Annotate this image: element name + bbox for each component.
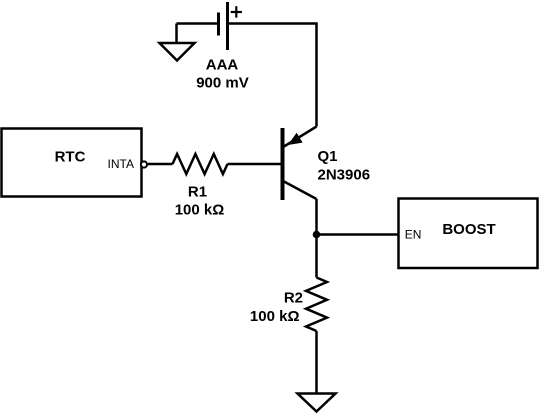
svg-text:100 kΩ: 100 kΩ — [250, 308, 300, 325]
junction node — [313, 231, 321, 239]
wire from ground stem to battery negative plate — [177, 22, 219, 25]
svg-text:900 mV: 900 mV — [196, 75, 249, 92]
svg-text:BOOST: BOOST — [442, 221, 495, 238]
INTA pin circle — [141, 161, 147, 167]
svg-text:Q1: Q1 — [318, 148, 338, 165]
wire collector down to R2 — [315, 199, 318, 278]
BOOST box — [399, 199, 538, 269]
wire R2 to ground — [315, 331, 318, 393]
battery V1 (AAA 900 mV) — [219, 2, 242, 50]
resistor R1 — [173, 154, 228, 174]
wire junction to BOOST EN — [317, 233, 399, 236]
transistor Q1 (PNP 2N3906) — [283, 127, 317, 201]
RTC box — [2, 129, 142, 197]
resistor R2 — [306, 278, 327, 332]
ground (bottom) — [298, 394, 336, 412]
svg-text:2N3906: 2N3906 — [318, 167, 371, 184]
wire R1 to base — [228, 163, 282, 166]
svg-text:R2: R2 — [284, 290, 303, 307]
svg-text:AAA: AAA — [206, 57, 239, 74]
svg-text:INTA: INTA — [108, 157, 134, 171]
svg-text:100 kΩ: 100 kΩ — [175, 202, 225, 219]
wire battery positive to emitter (top right corner) — [228, 24, 317, 127]
svg-text:RTC: RTC — [55, 149, 86, 166]
ground (top left) — [160, 24, 195, 61]
wire INTA pin to R1 — [148, 163, 173, 166]
svg-text:R1: R1 — [188, 184, 207, 201]
svg-text:EN: EN — [405, 228, 422, 242]
